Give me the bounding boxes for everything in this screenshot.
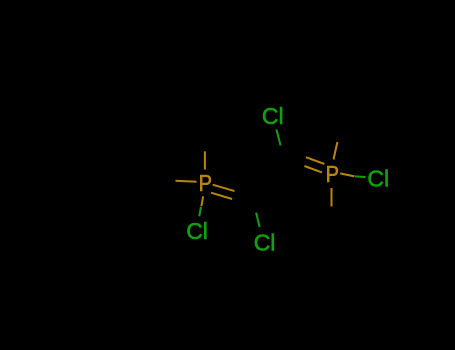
bond P1-Cl orange half xyxy=(201,196,203,206)
bond P1-CH3 left (orange half) xyxy=(176,181,197,182)
svg-text:P: P xyxy=(199,170,212,197)
svg-text:Cl: Cl xyxy=(262,103,284,129)
svg-text:P: P xyxy=(326,161,339,188)
svg-text:Cl: Cl xyxy=(254,229,276,255)
bond P1-Cl green half xyxy=(199,207,201,217)
double bond C2=P2 lower line (orange half) xyxy=(304,166,322,172)
svg-text:Cl: Cl xyxy=(186,218,208,244)
bond P2-CH3 down (orange half) xyxy=(331,188,333,207)
svg-text:Cl: Cl xyxy=(367,166,389,192)
bond P2-Cl green half xyxy=(355,175,366,178)
bond P2-CH3 up (orange half) xyxy=(334,142,338,160)
bond P2-Cl orange half xyxy=(340,173,354,176)
double bond P1=C1 lower line (orange half) xyxy=(211,193,232,199)
double bond P1=C1 upper line (orange half) xyxy=(213,185,235,191)
bond P1-CH3 up (orange half) xyxy=(204,151,206,169)
bond C1-Cl green half xyxy=(256,213,260,227)
bond C2-Cl green half xyxy=(276,129,280,145)
double bond C2=P2 upper line (orange half) xyxy=(306,157,324,164)
